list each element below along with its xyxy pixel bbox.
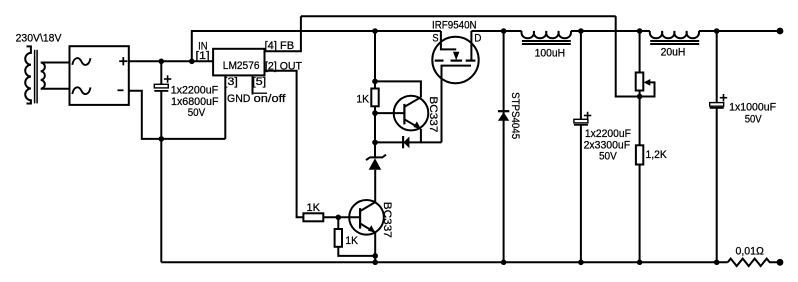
svg-text:50V: 50V: [188, 107, 206, 119]
transistor Q1 base bar: [403, 104, 405, 125]
inductor L2 20uH winding: [650, 31, 699, 38]
capacitor C2 positive plate: [574, 119, 588, 123]
svg-text:1x2200uF: 1x2200uF: [171, 85, 219, 97]
transistor Q1 BC337 body: [394, 96, 429, 131]
capacitor C3 positive plate: [710, 103, 724, 107]
resistor R3 top lead: [337, 217, 339, 229]
capacitor C3 bottom lead: [716, 108, 718, 262]
svg-text:[3]: [3]: [224, 76, 238, 88]
node junction C3: [714, 28, 720, 34]
svg-text:IRF9540N: IRF9540N: [432, 20, 477, 32]
potentiometer P1 bottom lead: [639, 91, 641, 146]
resistor R1 1K top lead: [374, 81, 376, 88]
transistor Q2 emitter: [360, 224, 375, 233]
wire rail 20uH to output: [699, 30, 780, 32]
diode D2 body: [404, 137, 410, 149]
inductor L1 core: [522, 40, 571, 42]
capacitor C1 bottom lead: [160, 91, 162, 262]
svg-text:1x6800uF: 1x6800uF: [171, 96, 219, 108]
op-amp U1 LM2576 body: [213, 49, 264, 76]
wire gate node: [375, 141, 442, 143]
capacitor C2 polarity +: [584, 115, 591, 117]
node Q1 base junction: [372, 110, 378, 116]
diode D2 cathode bar: [402, 136, 404, 148]
svg-text:1x1000uF: 1x1000uF: [729, 101, 776, 113]
capacitor C1 negative plate: [154, 90, 168, 92]
capacitor C1 top lead: [160, 61, 162, 84]
resistor R3 1K: [335, 229, 342, 247]
wire + output rail: [129, 60, 213, 62]
wire rail 100uH to 20uH: [571, 30, 650, 32]
wire node to zener cathode: [374, 142, 376, 158]
capacitor C2 negative plate: [574, 124, 588, 126]
capacitor C1 polarity +: [164, 78, 171, 80]
svg-text:230V\18V: 230V\18V: [16, 32, 62, 44]
capacitor C3 polarity +: [720, 97, 727, 99]
diode D1 lead: [503, 31, 505, 262]
resistor R1 bottom lead: [374, 106, 376, 113]
bridge rectifier plus terminal label: [119, 60, 127, 62]
resistor R1 1K: [371, 89, 378, 107]
transistor Q2 base bar: [359, 208, 361, 229]
pin 5 on/off stub: [252, 75, 254, 94]
transformer T1 primary winding: [25, 46, 31, 103]
bridge rectifier B1 body: [70, 46, 129, 105]
node ground junction C3: [714, 260, 720, 266]
mosfet U2 gate: [442, 66, 472, 143]
wire Q1 emitter to gate node: [420, 129, 422, 142]
wire ground rail: [161, 261, 727, 263]
svg-text:LM2576: LM2576: [223, 60, 260, 72]
bridge rectifier AC symbol bottom: [72, 87, 90, 94]
diode D1 cathode bar: [498, 110, 509, 112]
node Q2 base junction: [336, 215, 342, 221]
pin 4 FB wire: [265, 16, 301, 51]
svg-text:1K: 1K: [307, 202, 321, 214]
capacitor C2 top lead: [580, 31, 582, 120]
mosfet U2 drain lead: [470, 31, 472, 61]
svg-text:0,01Ω: 0,01Ω: [736, 245, 764, 257]
svg-text:20uH: 20uH: [661, 46, 686, 58]
transistor Q2 BC337 body: [349, 200, 384, 235]
transistor Q2 collector: [360, 202, 375, 211]
wire base node to zener: [374, 113, 376, 142]
node ground junction at C1: [159, 136, 165, 142]
mosfet U2 substrate arrow: [453, 52, 459, 60]
svg-text:1K: 1K: [345, 235, 358, 247]
node + junction at C1: [159, 59, 165, 65]
wire Q1 collector link: [375, 81, 421, 97]
wire drain rail: [471, 30, 521, 32]
svg-text:50V: 50V: [599, 150, 617, 162]
wire FB rail drop to potentiometer: [616, 16, 640, 96]
svg-text:[1]: [1]: [196, 50, 210, 62]
wire zener to Q2 collector: [374, 170, 376, 202]
node junction STPS4045: [501, 28, 507, 34]
capacitor C3 top lead: [716, 31, 718, 103]
mosfet U2 source lead: [441, 31, 456, 49]
zener D3 body: [369, 158, 382, 170]
node junction potentiometer: [637, 28, 643, 34]
node junction top rail to Q1 chain: [372, 28, 378, 34]
pin 2 OUT wire: [265, 71, 304, 218]
svg-text:1x2200uF: 1x2200uF: [585, 128, 631, 140]
wire input rail to MOSFET source: [192, 31, 441, 61]
node potentiometer wiper junction: [637, 94, 643, 100]
wire Q1 base: [375, 112, 404, 114]
svg-text:on/off: on/off: [254, 93, 287, 105]
svg-text:GND: GND: [227, 93, 250, 105]
node zener junction: [372, 140, 378, 146]
svg-text:STPS4045: STPS4045: [509, 92, 521, 139]
svg-text:S: S: [432, 33, 439, 45]
mosfet U2 body: [432, 37, 478, 83]
svg-text:[5]: [5]: [252, 76, 266, 88]
potentiometer P1 wiper arrow: [644, 79, 651, 86]
node ground junction R4: [637, 260, 643, 266]
resistor R4 bottom lead: [639, 165, 641, 263]
transistor Q1 emitter: [404, 119, 421, 129]
node ground junction D1: [501, 260, 507, 266]
node Q1 collector junction: [372, 79, 378, 85]
node junction C2: [578, 28, 584, 34]
node Q2 emitter junction: [372, 253, 378, 259]
diode D1 body: [498, 112, 509, 121]
bridge rectifier AC symbol top: [72, 58, 90, 65]
potentiometer P1 body: [636, 73, 644, 91]
wire FB feedback rail: [301, 15, 616, 17]
svg-text:[4] FB: [4] FB: [265, 40, 295, 52]
resistor R2 1K: [303, 213, 323, 221]
capacitor C2 bottom lead: [580, 125, 582, 262]
potentiometer P1 top lead: [639, 31, 641, 73]
node ground junction C2: [578, 260, 584, 266]
wire R2 to Q2 base: [323, 216, 360, 218]
node output terminal +: [777, 28, 784, 35]
svg-text:1,2K: 1,2K: [646, 149, 668, 161]
svg-text:1K: 1K: [356, 94, 369, 106]
svg-text:[2] OUT: [2] OUT: [265, 60, 302, 72]
transistor Q1 collector: [404, 97, 421, 107]
wire Q2 emitter to ground: [374, 233, 376, 263]
svg-text:BC337: BC337: [427, 96, 439, 132]
inductor L1 100uH winding: [521, 31, 571, 38]
node + junction at IN: [189, 59, 195, 65]
capacitor C3 negative plate: [710, 107, 724, 109]
resistor R3 bottom lead: [338, 247, 375, 256]
mosfet U2 channel segments: [435, 59, 444, 61]
wire Q1 chain from top rail: [374, 31, 376, 81]
resistor R4 1,2K: [636, 145, 643, 164]
svg-text:D: D: [474, 33, 481, 45]
svg-text:BC337: BC337: [381, 202, 393, 238]
pin 3 GND wire: [224, 75, 226, 138]
node output terminal -: [777, 259, 784, 266]
zener D3 cathode bar: [366, 155, 386, 160]
bridge rectifier minus terminal label: [118, 89, 124, 91]
svg-text:100uH: 100uH: [535, 48, 566, 60]
capacitor C1 positive plate: [154, 84, 168, 88]
transformer T1 core: [34, 50, 36, 104]
transformer T1 secondary winding: [41, 63, 70, 89]
svg-text:50V: 50V: [745, 113, 762, 125]
node ground junction Q2: [372, 260, 378, 266]
resistor R5 0,01 ohm: [728, 259, 780, 266]
inductor L2 core: [650, 40, 699, 42]
wire - output to ground bus: [129, 91, 226, 139]
